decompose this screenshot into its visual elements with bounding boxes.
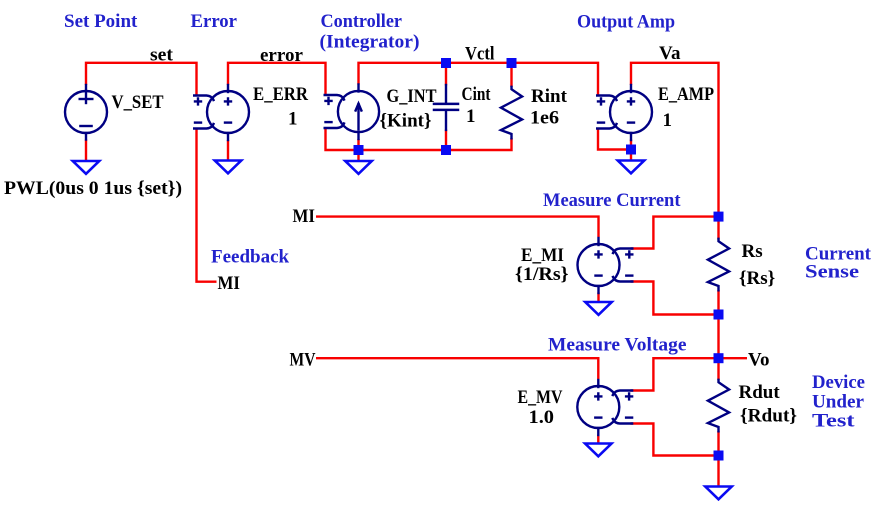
svg-text:{1/Rs}: {1/Rs} xyxy=(515,264,569,285)
svg-text:E_ERR: E_ERR xyxy=(253,84,308,105)
svg-text:MV: MV xyxy=(290,350,316,371)
wire MI net: MI label to E_MI output top xyxy=(316,217,599,237)
op-amp source E_ERR (E source, controls on left) xyxy=(194,85,249,140)
svg-text:Set Point: Set Point xyxy=(64,11,138,32)
wire Vctl net: G_INT output top to E_AMP + control xyxy=(359,63,599,96)
ground below E_AMP xyxy=(618,161,644,174)
wire set net: V_SET top to E_ERR + control xyxy=(86,63,197,96)
svg-text:1e6: 1e6 xyxy=(530,108,559,129)
svg-text:set: set xyxy=(150,45,174,66)
voltage source V_SET xyxy=(65,85,107,140)
wire E_MV - control to Rdut bottom junction xyxy=(631,424,719,456)
wire V_SET bottom to ground xyxy=(85,140,87,163)
wire Cint bottom xyxy=(445,130,447,151)
ground below G_INT xyxy=(345,161,371,174)
wire E_AMP bottom to ground xyxy=(630,140,632,161)
wire Rint top xyxy=(510,63,512,87)
junction Va rail at Rs top xyxy=(714,212,724,222)
wire E_MI - control to Rs bottom junction xyxy=(631,282,719,315)
measure-current source E_MI (E source mirrored, controls on right) xyxy=(578,238,633,293)
wire rail Vo junction to Rdut top xyxy=(717,358,719,380)
svg-text:Feedback: Feedback xyxy=(211,247,290,268)
ground below E_MI xyxy=(585,302,611,315)
wire feedback: E_ERR - control down to MI label xyxy=(197,128,217,281)
capacitor Cint xyxy=(434,85,458,130)
wire rail Rs bottom to Vo junction xyxy=(717,290,719,358)
wire MV net: MV label to E_MV output top xyxy=(316,358,598,379)
ground at bottom of rail xyxy=(705,487,731,500)
svg-text:Va: Va xyxy=(659,43,681,64)
resistor Rdut xyxy=(708,380,729,432)
ground below E_MV xyxy=(585,444,611,457)
svg-text:E_AMP: E_AMP xyxy=(658,84,714,105)
svg-text:Cint: Cint xyxy=(462,84,492,105)
wire Va net: E_AMP output top to right rail down to Rs xyxy=(631,63,719,217)
svg-text:E_MV: E_MV xyxy=(518,387,563,408)
svg-text:Test: Test xyxy=(812,411,855,432)
wire E_AMP - control to ground junction xyxy=(598,128,631,149)
wire E_MV bottom to ground xyxy=(597,435,599,445)
wire error net: E_ERR output to G_INT + control xyxy=(228,63,326,96)
junction node Vo xyxy=(714,353,724,363)
svg-text:error: error xyxy=(260,45,303,66)
svg-text:Device: Device xyxy=(812,372,865,393)
svg-text:Output Amp: Output Amp xyxy=(577,12,675,33)
svg-text:Measure Current: Measure Current xyxy=(543,190,681,211)
wire rail Rdut bottom to ground xyxy=(717,431,719,487)
svg-text:1: 1 xyxy=(466,106,476,127)
junction ground bus at G_INT bottom xyxy=(354,145,364,155)
svg-text:Rint: Rint xyxy=(531,86,568,107)
wire E_MV + control to Vo junction xyxy=(631,358,719,390)
resistor Rint xyxy=(501,87,522,139)
wire ground bus: G_INT - control to bottom bus to Rint bottom xyxy=(326,128,512,150)
svg-text:Controller: Controller xyxy=(321,11,403,32)
svg-text:{Kint}: {Kint} xyxy=(380,111,432,132)
measure-voltage source E_MV (E source mirrored, controls on right) xyxy=(577,380,632,435)
svg-text:MI: MI xyxy=(218,273,241,294)
wire E_MI bottom to ground xyxy=(597,293,599,303)
svg-text:V_SET: V_SET xyxy=(112,92,164,113)
svg-text:Rs: Rs xyxy=(742,241,763,262)
svg-text:Sense: Sense xyxy=(805,262,859,283)
ground below V_SET xyxy=(73,161,99,174)
svg-text:{Rs}: {Rs} xyxy=(739,268,775,289)
current source G_INT (G source, controls on left) xyxy=(325,85,379,140)
wire E_MI + control to Rs top junction xyxy=(631,217,719,249)
svg-text:{Rdut}: {Rdut} xyxy=(740,406,797,427)
junction E_AMP ground node xyxy=(626,145,636,155)
svg-text:1.0: 1.0 xyxy=(529,407,555,428)
op-amp source E_AMP (E source, controls on left) xyxy=(597,85,652,140)
junction node Vctl at Cint top xyxy=(441,58,451,68)
ground below E_ERR xyxy=(215,161,241,174)
junction rail at Rdut bottom xyxy=(714,451,724,461)
svg-text:Vctl: Vctl xyxy=(465,44,495,65)
svg-text:Rdut: Rdut xyxy=(739,382,781,403)
svg-text:PWL(0us 0 1us {set}): PWL(0us 0 1us {set}) xyxy=(4,178,182,199)
svg-text:Vo: Vo xyxy=(748,350,769,371)
wire Cint top xyxy=(445,63,447,86)
junction node Vctl at Rint top xyxy=(507,58,517,68)
svg-text:MI: MI xyxy=(293,206,316,227)
junction rail at Rs bottom xyxy=(714,310,724,320)
resistor Rs xyxy=(708,239,729,290)
svg-text:Measure Voltage: Measure Voltage xyxy=(548,335,687,356)
junction ground bus at Cint bottom xyxy=(441,145,451,155)
svg-text:(Integrator): (Integrator) xyxy=(320,32,420,53)
wire rail Rs top xyxy=(717,217,719,240)
svg-text:1: 1 xyxy=(663,110,673,131)
svg-text:G_INT: G_INT xyxy=(387,86,437,107)
svg-text:Error: Error xyxy=(191,11,238,32)
wire E_ERR bottom to ground xyxy=(227,140,229,161)
svg-text:1: 1 xyxy=(288,109,298,130)
svg-text:Under: Under xyxy=(812,392,865,413)
wire Vo stub xyxy=(719,357,748,359)
wire G_INT bottom to ground xyxy=(357,139,359,162)
svg-text:E_MI: E_MI xyxy=(521,245,564,266)
